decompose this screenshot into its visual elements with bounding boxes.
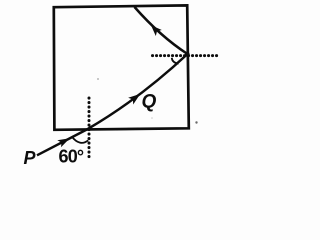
junction blob at reflection point	[185, 52, 190, 57]
60 degree incidence angle arc	[72, 136, 89, 143]
svg-text:Q: Q	[142, 92, 157, 113]
incident ray from P	[37, 130, 87, 156]
glass block box	[54, 5, 189, 129]
svg-text:60°: 60°	[59, 147, 84, 167]
arrowhead on reflected ray	[151, 25, 162, 36]
refracted ray inside block	[87, 54, 188, 130]
reflection angle arc	[172, 58, 179, 64]
dotted normal at reflection point	[153, 54, 219, 57]
dotted normal at entry point	[88, 98, 91, 160]
svg-text:P: P	[24, 148, 37, 168]
arrowhead on refracted ray	[128, 94, 140, 105]
reflected ray to top face	[135, 7, 188, 54]
arrowhead on incident ray	[57, 138, 70, 147]
